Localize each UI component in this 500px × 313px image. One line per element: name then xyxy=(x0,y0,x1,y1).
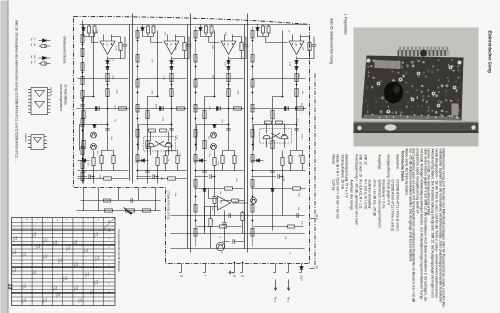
pin stub Ton c xyxy=(286,263,289,272)
svg-text:Ton e: Ton e xyxy=(273,296,276,303)
package leads xyxy=(150,131,168,155)
diode V9 xyxy=(226,60,230,63)
svg-text:R26: R26 xyxy=(23,252,25,255)
stub 0V top xyxy=(309,267,314,269)
svg-text:1xx: 1xx xyxy=(30,43,32,46)
svg-text:R: R xyxy=(107,255,109,257)
wire xyxy=(147,30,157,183)
resistor R15 xyxy=(204,26,207,33)
op-amp A4 xyxy=(289,41,304,55)
wire row near separator 248 xyxy=(251,26,253,246)
diode V21 xyxy=(82,158,85,162)
svg-text:G: G xyxy=(55,219,57,221)
caption Bild 25 xyxy=(329,18,333,64)
svg-text:15: 15 xyxy=(232,274,235,277)
wire xyxy=(204,30,214,230)
svg-text:12k: 12k xyxy=(207,135,209,138)
svg-text:g: g xyxy=(25,219,27,220)
diode V15 xyxy=(255,27,259,30)
photo background xyxy=(353,27,478,146)
Technische Daten heading xyxy=(400,150,404,181)
resistor R26 xyxy=(163,155,166,163)
resistor R34 xyxy=(104,208,112,211)
wire xyxy=(79,124,107,150)
resistor V2/V3r1 xyxy=(275,121,282,124)
capacitor C37 xyxy=(232,239,234,243)
resistor R605 xyxy=(136,154,139,162)
diode V1 xyxy=(105,60,109,63)
mid bus wire xyxy=(170,214,304,216)
svg-text:1xx: 1xx xyxy=(30,60,32,63)
resistor R27 xyxy=(220,155,223,163)
resistor R13 xyxy=(182,42,185,50)
wire xyxy=(76,200,160,210)
capacitor C24 xyxy=(270,170,274,172)
resistor R801 xyxy=(251,54,254,62)
svg-text:13: 13 xyxy=(240,274,243,277)
svg-text:1k: 1k xyxy=(218,235,220,237)
capacitor C18 xyxy=(130,198,132,202)
svg-text:R26: R26 xyxy=(57,292,59,295)
wire xyxy=(138,124,171,150)
resistor R16 xyxy=(226,73,229,81)
bracket hole xyxy=(384,124,396,130)
svg-text:100n: 100n xyxy=(300,134,302,138)
svg-text:1k: 1k xyxy=(288,252,290,254)
resistor R701 xyxy=(194,54,197,62)
resistor R708 xyxy=(194,228,197,236)
svg-text:1,21k: 1,21k xyxy=(94,256,96,261)
diode V3 xyxy=(81,27,85,30)
resistor R35 xyxy=(231,199,238,202)
svg-text:1,21k: 1,21k xyxy=(77,298,79,303)
svg-text:8,2k: 8,2k xyxy=(300,221,302,225)
capacitor C10a xyxy=(105,128,109,130)
svg-text:4,7k: 4,7k xyxy=(114,46,116,50)
resistor R704 xyxy=(194,129,197,137)
svg-text:+15 V: +15 V xyxy=(299,274,302,281)
svg-text:R26: R26 xyxy=(14,236,16,239)
diode V10c xyxy=(92,124,96,127)
svg-text:1,21k: 1,21k xyxy=(93,280,95,285)
resistor R603 xyxy=(136,104,139,112)
resistor R8 xyxy=(152,26,155,33)
page header xyxy=(486,30,491,72)
resistor R602 xyxy=(136,79,139,87)
svg-text:A4: A4 xyxy=(294,43,297,45)
capacitor C23 xyxy=(202,170,206,172)
wire xyxy=(227,56,229,150)
pin junction dots xyxy=(241,261,243,263)
svg-text:SAY: SAY xyxy=(33,55,36,60)
svg-text:1k: 1k xyxy=(287,30,289,32)
resistor R30 xyxy=(240,212,243,220)
svg-text:3,3k: 3,3k xyxy=(223,31,225,35)
svg-text:2,2k: 2,2k xyxy=(162,76,164,80)
light label patch xyxy=(374,60,400,69)
resistor R17 xyxy=(226,88,229,96)
table frame xyxy=(11,217,115,305)
svg-text:1,21k: 1,21k xyxy=(21,298,23,303)
diode V11 xyxy=(198,27,202,30)
capacitor C10f xyxy=(122,44,126,46)
resistor R52 xyxy=(280,157,283,165)
svg-text:1,21k: 1,21k xyxy=(73,262,75,267)
capacitor C22 xyxy=(145,170,149,172)
op-amp A5 xyxy=(217,196,230,210)
resistor R31 xyxy=(224,186,232,189)
svg-text:1: 1 xyxy=(203,274,206,276)
resistor R12 xyxy=(176,106,184,109)
resistor R46 xyxy=(145,140,148,148)
capacitor C1 (elko) xyxy=(286,106,288,110)
dual transistor V2/V3 (package outline) xyxy=(259,128,291,143)
resistor R3 xyxy=(87,26,90,33)
resistor R31 xyxy=(208,218,211,226)
wire xyxy=(223,210,225,248)
svg-text:12: 12 xyxy=(179,274,182,277)
svg-text:1k: 1k xyxy=(166,159,168,161)
svg-text:2,2k: 2,2k xyxy=(288,62,290,66)
wire xyxy=(204,188,247,233)
svg-text:47n: 47n xyxy=(178,152,180,155)
svg-text:1,21k: 1,21k xyxy=(42,298,44,303)
resistor R802 xyxy=(251,79,254,87)
pin stub Ton e xyxy=(273,263,276,272)
svg-text:680: 680 xyxy=(281,177,283,181)
resistor R40 xyxy=(287,225,294,228)
svg-text:4,7k: 4,7k xyxy=(223,62,225,66)
svg-text:22n: 22n xyxy=(297,74,299,77)
svg-text:470: 470 xyxy=(220,119,222,123)
wire xyxy=(136,77,186,79)
svg-text:R26: R26 xyxy=(54,286,56,289)
resistor R33 xyxy=(142,208,150,211)
svg-text:12k: 12k xyxy=(301,46,303,49)
op-amp A1 xyxy=(100,41,115,55)
svg-text:220k: 220k xyxy=(174,46,176,50)
capacitor C4a xyxy=(226,128,230,130)
board screws xyxy=(366,58,370,62)
svg-text:R26: R26 xyxy=(44,298,46,301)
resistor R7 xyxy=(239,42,242,50)
second module dash-dot edge xyxy=(314,73,316,267)
wire xyxy=(77,77,128,79)
svg-text:R26: R26 xyxy=(64,276,66,279)
table diagonal cell xyxy=(103,217,115,229)
resistor R35 xyxy=(103,199,110,202)
svg-text:1xx: 1xx xyxy=(30,55,32,58)
svg-text:8,2k: 8,2k xyxy=(110,136,112,140)
svg-text:33k: 33k xyxy=(95,30,97,33)
resistor R43 xyxy=(202,110,205,118)
resistor R29 xyxy=(103,176,111,179)
resistor R705 xyxy=(194,154,197,162)
capacitor C1a xyxy=(294,128,298,130)
svg-text:C7235B A700-0T11 (-0T12): C7235B A700-0T11 (-0T12) xyxy=(166,190,169,220)
svg-text:12k: 12k xyxy=(219,190,221,193)
svg-text:100k: 100k xyxy=(236,90,238,94)
resistor V2/V3r2 xyxy=(264,121,271,124)
svg-text:33k: 33k xyxy=(159,176,161,179)
wire xyxy=(209,206,211,248)
capacitor C34 xyxy=(296,213,298,217)
resistor R604 xyxy=(136,129,139,137)
svg-text:1,21k: 1,21k xyxy=(65,246,67,251)
capacitor C7a xyxy=(169,128,173,130)
svg-text:C: C xyxy=(107,282,109,284)
legend diode SAY xyxy=(38,56,50,60)
transistor V2/V3b xyxy=(263,135,270,139)
resistor R2 xyxy=(93,26,96,33)
resistor R24 xyxy=(300,155,303,163)
resistor R49 xyxy=(91,157,94,165)
wire xyxy=(83,30,93,183)
svg-text:R26: R26 xyxy=(75,262,77,265)
resistor R22 xyxy=(294,73,297,81)
resistor R41 xyxy=(81,110,84,118)
diode V10 xyxy=(226,66,230,69)
svg-text:33k: 33k xyxy=(296,206,298,209)
resistor R56 xyxy=(81,146,84,154)
resistor R702 xyxy=(194,79,197,87)
svg-text:8,2k: 8,2k xyxy=(161,117,163,121)
wire xyxy=(135,107,187,109)
svg-text:R26: R26 xyxy=(13,268,15,271)
svg-text:R26: R26 xyxy=(91,290,93,293)
diode V23 xyxy=(199,158,202,162)
resistor R21 xyxy=(111,155,114,163)
svg-text:R26: R26 xyxy=(96,256,98,259)
capacitor C16 xyxy=(222,222,226,224)
capacitor C10 (elko) xyxy=(97,106,99,110)
svg-text:100n: 100n xyxy=(115,89,117,93)
introductory paragraph xyxy=(403,148,444,307)
svg-text:1,21k: 1,21k xyxy=(11,250,13,255)
transistor cans xyxy=(448,65,452,69)
svg-text:Frequenzbestimmende Bauteile: Frequenzbestimmende Bauteile xyxy=(117,229,121,272)
svg-text:R26: R26 xyxy=(67,246,69,249)
svg-text:A2: A2 xyxy=(169,43,172,45)
resistor R32 xyxy=(292,186,300,189)
technical data table xyxy=(397,147,399,149)
svg-text:0 V: 0 V xyxy=(315,265,318,269)
wire xyxy=(170,56,172,150)
svg-text:c: c xyxy=(45,219,47,220)
transistor V10a xyxy=(90,132,96,138)
resistor R11 xyxy=(169,88,172,96)
pin stub 1 xyxy=(203,263,206,272)
svg-text:1,21k: 1,21k xyxy=(62,276,64,281)
resistor R19 xyxy=(118,42,121,50)
svg-text:R26: R26 xyxy=(59,258,61,261)
resistor R4 xyxy=(105,73,108,81)
resistor R44 xyxy=(270,110,273,118)
dual transistor V5/V6 (package outline) xyxy=(143,136,175,151)
svg-text:1,21k: 1,21k xyxy=(52,240,54,245)
resistor R22 xyxy=(175,155,178,163)
svg-text:22n: 22n xyxy=(301,90,303,93)
svg-text:3,3k: 3,3k xyxy=(175,135,177,139)
svg-text:IC-Anschlüsse: IC-Anschlüsse xyxy=(63,84,67,105)
svg-text:Ton c: Ton c xyxy=(286,296,289,303)
wire xyxy=(193,107,244,109)
svg-text:R26: R26 xyxy=(44,238,46,241)
svg-text:Diodenanschlüsse: Diodenanschlüsse xyxy=(62,36,66,63)
svg-text:A3: A3 xyxy=(226,43,229,45)
right bus wire 2 xyxy=(170,232,304,234)
op-amp A3 xyxy=(221,41,236,55)
table heavy dividers xyxy=(11,229,115,294)
svg-text:2n2: 2n2 xyxy=(234,178,236,182)
figure caption Bild 26 xyxy=(14,20,18,163)
pcb board xyxy=(361,55,463,120)
wire xyxy=(194,77,243,79)
band separator wire A xyxy=(129,13,132,183)
svg-text:R26: R26 xyxy=(86,272,88,275)
transistor V2/V3a xyxy=(280,135,287,139)
svg-text:e: e xyxy=(76,219,78,221)
svg-text:B 861 D: B 861 D xyxy=(49,87,51,95)
svg-text:47n: 47n xyxy=(207,106,209,109)
svg-text:1k: 1k xyxy=(219,250,221,252)
board components xyxy=(451,59,453,61)
svg-text:R26: R26 xyxy=(33,270,35,273)
resistor R700 xyxy=(194,30,197,38)
diode V24 xyxy=(256,158,259,162)
svg-text:1,21k: 1,21k xyxy=(35,244,37,249)
resistor R600 xyxy=(136,30,139,38)
resistor R805 xyxy=(251,154,254,162)
resistor R24 xyxy=(295,106,303,109)
svg-text:R26: R26 xyxy=(23,298,25,301)
pin stub 15 xyxy=(232,263,235,272)
wire xyxy=(106,56,108,150)
svg-text:1,21k: 1,21k xyxy=(42,254,44,259)
svg-text:R26: R26 xyxy=(37,244,39,247)
resistor R39 xyxy=(219,225,226,228)
svg-text:R26: R26 xyxy=(85,248,87,251)
wire row near separator 305 xyxy=(194,26,196,246)
svg-text:+15 V: +15 V xyxy=(315,213,318,220)
IC pinout MAA502 xyxy=(31,134,44,149)
page number xyxy=(6,283,12,289)
capacitor C41 xyxy=(209,174,211,178)
svg-text:R: R xyxy=(107,273,109,275)
svg-text:e: e xyxy=(35,219,37,221)
ground symbol pin xyxy=(228,270,234,274)
output arrow Ton e xyxy=(274,279,276,290)
resistor R50 xyxy=(155,157,158,165)
resistor R51 xyxy=(212,157,215,165)
stub wires xyxy=(83,187,155,210)
svg-text:56k: 56k xyxy=(150,90,152,93)
resistor R18 xyxy=(233,106,241,109)
resistor R807 xyxy=(251,204,254,212)
svg-text:10k: 10k xyxy=(211,74,213,77)
svg-text:1k: 1k xyxy=(111,59,113,61)
wire xyxy=(241,210,243,233)
resistor R23 xyxy=(232,155,235,163)
svg-text:4,7k: 4,7k xyxy=(296,118,298,122)
PCB photograph block xyxy=(353,27,478,146)
svg-text:R26: R26 xyxy=(33,232,35,235)
mounting bracket xyxy=(353,121,478,133)
resistor R54 xyxy=(81,90,84,98)
resistor R51 xyxy=(81,48,84,56)
stub +15V top xyxy=(309,217,314,219)
resistor R21 xyxy=(261,26,264,33)
svg-text:1,21k: 1,21k xyxy=(73,286,75,291)
svg-text:1,21k: 1,21k xyxy=(93,232,95,237)
caption 1 Pegelsteller xyxy=(342,13,346,35)
svg-text:R26: R26 xyxy=(95,280,97,283)
bottom gray strip xyxy=(8,0,9,313)
capacitor C42 xyxy=(277,174,279,178)
svg-text:1,21k: 1,21k xyxy=(72,240,74,245)
svg-text:A5: A5 xyxy=(219,201,222,203)
supply rail wire (left vertical) xyxy=(79,23,304,25)
connector hole xyxy=(420,49,427,56)
svg-text:1,21k: 1,21k xyxy=(21,252,23,257)
resistor R47 xyxy=(202,140,205,148)
wire xyxy=(196,124,228,150)
resistor R48 xyxy=(270,140,273,148)
svg-text:56k: 56k xyxy=(297,153,299,156)
pin stub +15 V xyxy=(299,263,302,272)
resistor R23 xyxy=(294,88,297,96)
wire xyxy=(250,107,306,109)
table column lines xyxy=(11,222,115,301)
resistor R5 xyxy=(105,88,108,96)
wire xyxy=(251,77,305,79)
svg-text:1,21k: 1,21k xyxy=(57,258,59,263)
wire xyxy=(295,56,297,150)
resistor V5/V6r2 xyxy=(148,129,155,132)
svg-text:4,7k: 4,7k xyxy=(163,31,165,35)
svg-text:100k: 100k xyxy=(210,44,212,48)
transistor V27 xyxy=(216,242,224,250)
transistor V12 xyxy=(250,197,256,203)
wire xyxy=(76,107,129,109)
resistor R53 xyxy=(81,76,84,84)
resistor R55 xyxy=(81,118,84,126)
svg-text:SY: SY xyxy=(33,60,35,63)
resistor R42 xyxy=(145,110,148,118)
junction dots bottom row xyxy=(81,43,83,45)
edge connector strip xyxy=(397,50,449,56)
svg-text:R26: R26 xyxy=(75,286,77,289)
svg-text:470: 470 xyxy=(216,161,218,165)
right bus wire xyxy=(170,247,304,249)
resistor R45 xyxy=(81,140,84,148)
svg-text:1,21k: 1,21k xyxy=(42,238,44,243)
svg-text:R: R xyxy=(107,237,109,239)
solder pads row xyxy=(455,116,457,118)
transistor V11b xyxy=(210,143,216,149)
resistor R55 xyxy=(213,196,216,203)
transistor V10b xyxy=(90,143,96,149)
svg-text:2n2: 2n2 xyxy=(211,207,213,211)
potentiometer 1 (Pegelsteller) xyxy=(125,208,134,211)
band separator wire B xyxy=(187,13,190,252)
resistor R14 xyxy=(210,26,213,33)
capacitor C29 xyxy=(80,104,84,106)
resistor R601 xyxy=(136,54,139,62)
svg-text:GA: GA xyxy=(33,43,36,47)
resistor R57 xyxy=(81,160,84,168)
svg-text:1µ: 1µ xyxy=(113,119,115,122)
